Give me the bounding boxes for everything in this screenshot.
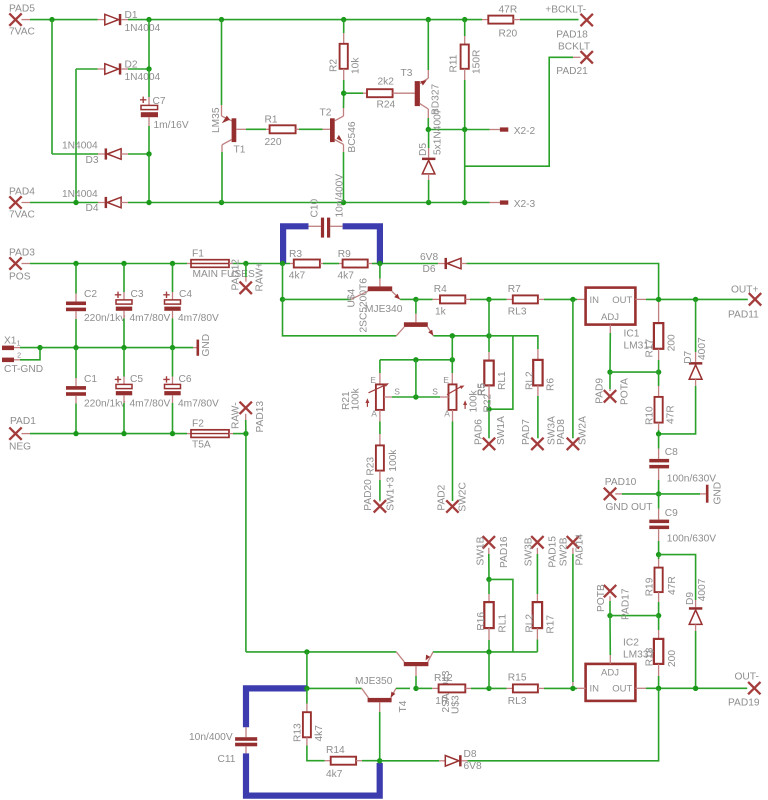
svg-text:PAD10: PAD10 xyxy=(605,477,637,488)
svg-text:PAD18: PAD18 xyxy=(556,29,588,40)
pad SW1B PAD16 xyxy=(476,536,511,579)
svg-text:T1: T1 xyxy=(234,145,246,156)
junction dots X2-2 row xyxy=(426,127,468,132)
svg-text:X2-2: X2-2 xyxy=(514,126,536,137)
junction SW1B node xyxy=(486,577,491,582)
svg-text:PAD5: PAD5 xyxy=(9,4,35,15)
svg-text:C11: C11 xyxy=(218,754,236,765)
svg-text:PAD7: PAD7 xyxy=(521,419,532,445)
junction after F2 xyxy=(243,431,248,436)
junction SW2A feed node xyxy=(570,297,575,302)
wire SW2A vertical xyxy=(572,299,574,438)
wire D6 to OUT+ node xyxy=(467,264,659,300)
pad PAD21 BCKLT xyxy=(556,42,593,77)
svg-text:F1: F1 xyxy=(192,249,204,260)
capacitor C8 100n/630V xyxy=(649,434,716,494)
svg-text:S: S xyxy=(394,387,400,397)
svg-text:C10: C10 xyxy=(310,198,321,217)
pad SW2A PAD8 xyxy=(556,416,589,450)
wire ADJ2 node horizontal xyxy=(610,615,659,617)
svg-text:PAD17: PAD17 xyxy=(620,588,631,620)
wire U$4 emitter to node xyxy=(400,298,416,300)
svg-text:4007: 4007 xyxy=(697,578,708,601)
diode D2 1N4004 xyxy=(98,60,161,84)
junction dots ADJ node xyxy=(607,369,661,374)
svg-text:4m7/80V: 4m7/80V xyxy=(130,313,171,324)
svg-text:100k: 100k xyxy=(388,449,399,472)
svg-text:IN: IN xyxy=(590,683,600,694)
svg-text:10n/400V: 10n/400V xyxy=(335,174,346,218)
svg-text:R16: R16 xyxy=(476,612,487,631)
svg-text:R24: R24 xyxy=(377,99,396,110)
wire SW1B loop to bottom bus xyxy=(489,579,513,652)
svg-text:PAD12: PAD12 xyxy=(231,259,242,291)
resistor R20 47R xyxy=(482,4,579,39)
wire IC2 ADJ up xyxy=(609,616,611,664)
svg-text:A: A xyxy=(371,409,377,419)
svg-text:D2: D2 xyxy=(125,60,138,71)
svg-text:C1: C1 xyxy=(84,374,97,385)
svg-text:ADJ: ADJ xyxy=(601,667,619,678)
svg-text:4k7: 4k7 xyxy=(289,271,306,282)
capacitor C7 1m/16V xyxy=(140,69,189,154)
pad PAD17 POTB xyxy=(596,584,632,620)
wire S bus xyxy=(392,396,440,398)
junction dots OUT- rail xyxy=(656,686,698,691)
svg-text:4k7: 4k7 xyxy=(338,271,355,282)
svg-text:D9: D9 xyxy=(685,592,696,605)
resistor R13 4k7 xyxy=(293,688,326,760)
svg-text:6V8: 6V8 xyxy=(420,252,438,263)
svg-text:220n/1kv: 220n/1kv xyxy=(84,399,126,410)
transistor MJE340 driver xyxy=(365,299,433,335)
svg-text:PAD3: PAD3 xyxy=(9,248,35,259)
svg-text:C9: C9 xyxy=(665,508,678,519)
wire top rail from PAD5 to D1 xyxy=(30,19,98,21)
junction x149 D2 out xyxy=(146,66,151,71)
junction dots NEG rail xyxy=(73,431,175,436)
svg-text:D8: D8 xyxy=(464,749,477,760)
trimmer R21 100k xyxy=(341,360,400,419)
svg-text:R17: R17 xyxy=(546,615,557,634)
svg-text:PAD15: PAD15 xyxy=(547,536,558,568)
svg-text:RL2: RL2 xyxy=(524,614,535,633)
wire mid rail xyxy=(40,347,193,349)
svg-text:RL2: RL2 xyxy=(524,371,535,390)
junction U$3 base node xyxy=(304,686,309,691)
resistor R5 RL1 xyxy=(477,336,509,409)
svg-text:E: E xyxy=(443,375,449,385)
junction x149 D3 row xyxy=(146,151,151,156)
wire ADJ node horizontal xyxy=(610,371,659,373)
junction driver2 node xyxy=(413,686,418,691)
svg-text:T3: T3 xyxy=(401,68,413,79)
pad PAD3 POS xyxy=(9,248,35,283)
pad SW1A PAD6 xyxy=(474,409,508,450)
capacitor C9 100n/630V xyxy=(649,494,716,555)
svg-text:4m7/80V: 4m7/80V xyxy=(178,399,219,410)
svg-text:MJE350: MJE350 xyxy=(355,676,393,687)
svg-text:200: 200 xyxy=(667,650,678,667)
svg-text:GND: GND xyxy=(712,482,723,505)
junction dots y652 xyxy=(304,649,492,654)
svg-text:2: 2 xyxy=(17,351,21,360)
svg-text:SW2C: SW2C xyxy=(457,482,468,511)
wire D8 bus xyxy=(380,760,439,762)
svg-text:R22: R22 xyxy=(483,393,494,412)
fuse F2 T5A xyxy=(187,419,246,451)
wire IC2 OUT to OUT- rail xyxy=(635,687,747,689)
svg-text:R11: R11 xyxy=(449,54,460,72)
svg-text:SW1+3: SW1+3 xyxy=(386,477,397,511)
svg-text:R12: R12 xyxy=(434,673,453,684)
wire lower rail D4 to X2-3 xyxy=(128,202,490,204)
svg-text:10n/400V: 10n/400V xyxy=(189,732,233,743)
svg-text:C8: C8 xyxy=(665,447,678,458)
svg-text:1m/16V: 1m/16V xyxy=(154,120,189,131)
svg-text:7VAC: 7VAC xyxy=(9,27,35,38)
junction dots POS rail caps xyxy=(73,261,175,266)
wire lower rail PAD4 to D4 xyxy=(30,202,98,204)
svg-text:PAD2: PAD2 xyxy=(437,484,448,510)
svg-text:IN: IN xyxy=(590,295,600,306)
resistor R1 220 xyxy=(246,115,330,148)
svg-text:100k: 100k xyxy=(350,387,361,410)
svg-text:RAW+: RAW+ xyxy=(255,262,266,291)
svg-text:47R: 47R xyxy=(667,576,678,595)
svg-text:C6: C6 xyxy=(179,374,192,385)
svg-text:150R: 150R xyxy=(472,50,483,74)
pad PAD5 7VAC xyxy=(9,4,35,38)
junction driver node xyxy=(413,297,418,302)
connector stub X2-2 xyxy=(490,126,536,137)
resistor R2 10k xyxy=(329,20,362,94)
svg-text:1: 1 xyxy=(17,339,21,348)
svg-text:RL1: RL1 xyxy=(497,371,508,390)
junction T4 collector node xyxy=(377,758,382,763)
junction T2 collector node xyxy=(341,91,346,96)
pad PAD10 GND OUT xyxy=(604,477,659,513)
wire vertical x52 down to D3 row xyxy=(51,20,53,154)
svg-text:NEG: NEG xyxy=(9,442,31,453)
svg-text:D6: D6 xyxy=(423,264,436,275)
svg-text:PAD20: PAD20 xyxy=(363,479,374,511)
wire POS rail xyxy=(30,263,187,265)
svg-text:SW1B: SW1B xyxy=(476,536,487,565)
junction C10 left / divider top xyxy=(280,261,285,266)
junction GND OUT node xyxy=(656,491,661,496)
svg-text:R1: R1 xyxy=(265,115,278,126)
pad SW3A PAD7 xyxy=(521,416,558,450)
ic IC1 LM317 xyxy=(586,288,655,352)
junction ADJ2 dots xyxy=(607,613,661,618)
junction SW2B node xyxy=(570,686,575,691)
svg-text:LM35: LM35 xyxy=(211,107,222,133)
svg-text:1R: 1R xyxy=(435,696,448,707)
diode D5 5x1N4007 xyxy=(418,108,444,202)
svg-text:PAD13: PAD13 xyxy=(255,401,266,433)
svg-text:PAD4: PAD4 xyxy=(9,187,35,198)
wire vertical x489 to emitter bus xyxy=(488,299,490,335)
pad PAD20 SW1+3 xyxy=(363,477,397,513)
wire X2-2 row xyxy=(428,129,489,131)
svg-text:SW3B: SW3B xyxy=(524,537,535,566)
resistor R14 4k7 xyxy=(325,745,380,780)
resistor R19 47R xyxy=(644,555,678,616)
capacitor C10 10n/400V blue loop xyxy=(283,174,380,264)
pad PAD19 OUT- xyxy=(728,672,761,709)
junction R4-R7 node xyxy=(486,297,491,302)
svg-text:RL1: RL1 xyxy=(497,614,508,633)
svg-text:OUT-: OUT- xyxy=(735,672,759,683)
capacitor C3 4m7/80V xyxy=(115,264,171,348)
svg-text:PAD11: PAD11 xyxy=(728,310,759,321)
svg-text:R19: R19 xyxy=(644,577,655,596)
svg-text:+BCKLT-: +BCKLT- xyxy=(545,5,586,16)
wire trimmer top bus y360 xyxy=(380,359,452,361)
pad PAD9 POTA xyxy=(594,372,630,405)
svg-text:100n/630V: 100n/630V xyxy=(667,533,716,544)
resistor R7 RL3 xyxy=(489,284,577,318)
capacitor C1 220n/1kv xyxy=(66,348,126,434)
svg-text:R9: R9 xyxy=(338,249,351,260)
svg-text:R23: R23 xyxy=(366,457,377,476)
svg-text:R20: R20 xyxy=(499,29,518,40)
junction RL1 bottom xyxy=(486,407,491,412)
svg-text:E: E xyxy=(370,375,376,385)
pad PAD1 NEG xyxy=(9,416,36,452)
wire RL1 bypass loop xyxy=(489,336,538,409)
resistor R4 1k xyxy=(416,284,489,317)
diode D6 6V8 xyxy=(420,252,467,275)
junction C9 bottom xyxy=(656,552,661,557)
resistor R17 200 (IC1 program) xyxy=(644,302,677,372)
wire base feed and lower loop xyxy=(283,299,397,335)
svg-text:F2: F2 xyxy=(192,419,204,430)
svg-text:6V8: 6V8 xyxy=(464,761,482,772)
wire base bus y688 left xyxy=(307,687,362,689)
svg-text:1N4004: 1N4004 xyxy=(62,189,98,200)
junction after F1 xyxy=(243,261,248,266)
wire vertical x464.7 to lower rail xyxy=(464,130,466,203)
svg-text:CT-GND: CT-GND xyxy=(4,364,43,375)
svg-text:BC546: BC546 xyxy=(347,121,358,152)
junction dots top rail xyxy=(146,17,467,22)
capacitor C2 220n/1kv xyxy=(66,264,126,348)
junction R12-R15 node xyxy=(486,686,491,691)
svg-text:PAD8: PAD8 xyxy=(556,419,567,445)
wire D2 anode left + vertical x76 xyxy=(76,69,98,203)
svg-text:100n/630V: 100n/630V xyxy=(667,473,716,484)
wire vertical x306.9 xyxy=(306,652,308,689)
junction dots lower rail xyxy=(73,200,467,205)
svg-text:R13: R13 xyxy=(293,723,304,742)
diode D3 1N4004 xyxy=(52,141,149,166)
wire PAD21 to X2-3 rail xyxy=(465,57,581,166)
svg-text:D4: D4 xyxy=(86,203,99,214)
svg-text:OUT: OUT xyxy=(612,295,632,306)
junction S bus xyxy=(413,394,418,399)
resistor R18 200 (IC2 program) xyxy=(644,616,678,689)
svg-text:POS: POS xyxy=(9,272,31,283)
svg-text:X2-3: X2-3 xyxy=(514,199,536,210)
wire emitter bus y336 xyxy=(433,335,489,337)
svg-text:1N4004: 1N4004 xyxy=(125,23,161,34)
pad SW3B PAD15 xyxy=(524,536,559,594)
transistor T3 BD327 xyxy=(401,20,442,130)
transistor U$3 2SA1943 xyxy=(396,652,461,714)
svg-text:IC2: IC2 xyxy=(623,637,639,648)
svg-text:OUT: OUT xyxy=(612,683,632,694)
svg-text:SW2A: SW2A xyxy=(578,416,589,445)
wire POS rail F1 to R3 xyxy=(233,263,290,265)
diode D4 1N4004 xyxy=(62,189,128,214)
svg-text:RL3: RL3 xyxy=(508,307,527,318)
svg-text:SW1A: SW1A xyxy=(496,416,507,445)
svg-text:PAD14: PAD14 xyxy=(575,534,586,566)
wire bottom emitter bus y652 xyxy=(246,651,538,653)
junction dots OUT+ rail xyxy=(656,297,698,302)
svg-text:4k7: 4k7 xyxy=(326,769,343,780)
svg-text:C7: C7 xyxy=(153,96,166,107)
pad PAD13 RAW- xyxy=(231,401,267,434)
pad PAD18 +BCKLT- xyxy=(545,5,593,41)
svg-text:1N4004: 1N4004 xyxy=(125,72,161,83)
svg-text:C4: C4 xyxy=(179,289,192,300)
transistor T4 MJE350 xyxy=(355,676,410,761)
wire vertical x149 D1-D2 xyxy=(148,20,150,69)
resistor R3 4k7 xyxy=(289,249,323,281)
svg-text:R10: R10 xyxy=(644,406,655,425)
svg-text:PAD1: PAD1 xyxy=(10,416,36,427)
svg-text:2k2: 2k2 xyxy=(378,77,395,88)
diode D1 1N4004 xyxy=(98,10,161,34)
junction top rail x52 xyxy=(49,17,54,22)
junction X1 node xyxy=(37,345,42,350)
svg-text:220n/1kv: 220n/1kv xyxy=(84,313,126,324)
svg-text:BCKLT: BCKLT xyxy=(558,42,590,53)
svg-text:C5: C5 xyxy=(130,374,143,385)
svg-text:POTB: POTB xyxy=(596,584,607,612)
wire vertical x452.3 emitter to trimmer bus xyxy=(451,336,453,360)
svg-text:4m7/80V: 4m7/80V xyxy=(130,399,171,410)
wire R15 to IC2 IN xyxy=(577,687,585,689)
junction R10 bottom xyxy=(656,431,661,436)
svg-text:ADJ: ADJ xyxy=(601,312,619,323)
svg-text:4k7: 4k7 xyxy=(314,725,325,742)
svg-text:LM337: LM337 xyxy=(623,649,654,660)
wire NEG rail xyxy=(30,433,187,435)
svg-text:GND OUT: GND OUT xyxy=(606,502,653,513)
junction U$4 base node xyxy=(280,297,285,302)
svg-text:OUT+: OUT+ xyxy=(731,285,759,296)
svg-text:47R: 47R xyxy=(499,4,518,15)
wire IC1 OUT to OUT+ rail xyxy=(635,298,747,300)
diode D9 4007 xyxy=(659,555,708,689)
svg-text:PAD6: PAD6 xyxy=(474,419,485,445)
resistor R24 2k2 xyxy=(344,77,415,111)
wire D8 to OUT- node xyxy=(468,688,659,761)
svg-text:A: A xyxy=(444,409,450,419)
capacitor C5 4m7/80V xyxy=(115,348,171,434)
resistor R16 RL1 xyxy=(476,579,508,652)
svg-text:IC1: IC1 xyxy=(624,328,640,339)
wire vertical x489 bus link xyxy=(488,652,490,689)
svg-text:C3: C3 xyxy=(131,289,144,300)
resistor R11 150R xyxy=(449,20,483,130)
svg-text:POTA: POTA xyxy=(619,378,630,405)
svg-text:PAD16: PAD16 xyxy=(499,536,510,568)
capacitor C4 4m7/80V xyxy=(163,264,219,348)
svg-text:47R: 47R xyxy=(666,405,677,424)
connector X1 CT-GND xyxy=(2,336,43,375)
svg-text:10k: 10k xyxy=(351,57,362,74)
wire R9 to D6 xyxy=(380,263,438,265)
svg-text:1k: 1k xyxy=(435,306,447,317)
svg-text:220: 220 xyxy=(265,137,282,148)
svg-text:R6: R6 xyxy=(546,378,557,391)
wire R22 wiper-A to PAD2 xyxy=(452,410,454,501)
pad PAD12 RAW+ xyxy=(231,259,266,294)
svg-text:R14: R14 xyxy=(326,745,345,756)
pad PAD4 7VAC xyxy=(9,187,35,221)
svg-text:R2: R2 xyxy=(329,59,340,72)
wire long vertical x245.9 NEG to bottom bus xyxy=(245,434,247,652)
svg-text:1N4004: 1N4004 xyxy=(62,141,98,152)
svg-text:200: 200 xyxy=(667,334,678,351)
svg-text:D3: D3 xyxy=(86,155,99,166)
svg-text:R4: R4 xyxy=(434,284,447,295)
diode D7 4007 xyxy=(659,299,708,434)
diode D8 6V8 xyxy=(439,749,482,772)
resistor R23 100k xyxy=(366,410,400,502)
resistor R17 RL2 xyxy=(524,594,556,652)
svg-text:SW2B: SW2B xyxy=(559,537,570,566)
svg-text:X1: X1 xyxy=(4,336,17,347)
resistor R15 RL3 xyxy=(489,673,577,707)
svg-text:4m7/80V: 4m7/80V xyxy=(178,313,219,324)
svg-text:S: S xyxy=(432,387,438,397)
svg-text:PAD9: PAD9 xyxy=(594,378,605,404)
svg-text:R15: R15 xyxy=(508,673,527,684)
junction dots y360 xyxy=(413,357,455,362)
pad PAD11 OUT+ xyxy=(728,285,761,321)
ground GND OUT symbol xyxy=(659,482,724,505)
wire top rail D1 to R20 xyxy=(128,19,482,21)
junction dots y336 xyxy=(450,333,492,338)
wire IC1 ADJ down xyxy=(609,325,611,373)
svg-text:T4: T4 xyxy=(398,700,409,712)
pad SW2B PAD14 xyxy=(559,534,586,689)
pad PAD2 SW2C xyxy=(437,482,469,513)
svg-text:D5: D5 xyxy=(418,143,429,156)
svg-text:RAW-: RAW- xyxy=(231,402,242,429)
svg-text:PAD19: PAD19 xyxy=(728,698,760,709)
resistor R9 4k7 xyxy=(323,249,380,281)
svg-text:U$4: U$4 xyxy=(347,288,358,307)
svg-text:5x1N4007: 5x1N4007 xyxy=(432,108,443,155)
svg-text:4007: 4007 xyxy=(697,337,708,360)
connector stub X2-3 xyxy=(490,199,536,210)
capacitor C11 10n/400V blue loop xyxy=(189,688,380,795)
transistor T2 BC546 xyxy=(320,93,359,202)
junction dots mid rail xyxy=(73,345,175,350)
svg-text:7VAC: 7VAC xyxy=(9,210,35,221)
resistor R12 1R xyxy=(416,673,489,707)
svg-text:RL3: RL3 xyxy=(508,696,527,707)
svg-text:R3: R3 xyxy=(289,249,302,260)
trimmer R22 100k xyxy=(432,360,493,419)
